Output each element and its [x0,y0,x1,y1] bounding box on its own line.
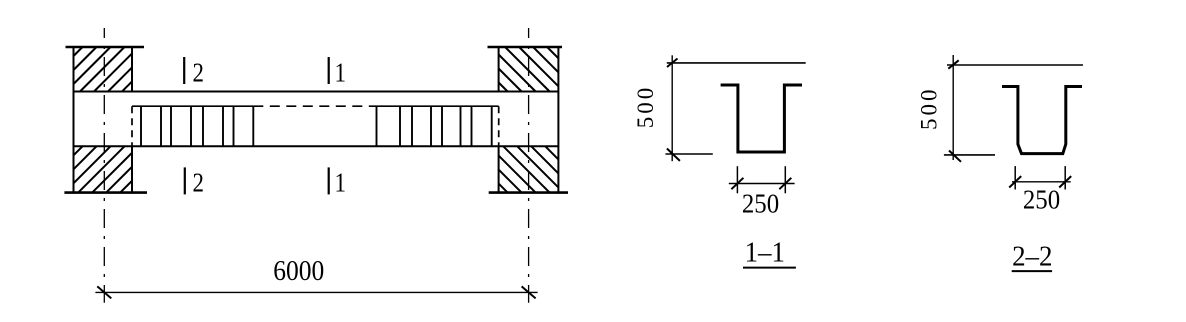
hatch bottom-left support [74,146,133,192]
section 2-2 bottom reference line [944,154,995,156]
svg-text:500: 500 [917,87,942,131]
section 1-1 U-profile [721,85,802,152]
top cap line left [66,46,145,49]
bottom cap line left [64,191,147,194]
centerline left column [103,28,105,303]
section 2-2 dimension line 250 [1012,181,1071,183]
section 2-2 U-profile [1002,87,1082,154]
section 1-1 bottom reference line [666,153,713,155]
right column left edge upper [498,46,500,92]
svg-text:1: 1 [335,169,346,198]
section 2-2 extension line left [1014,166,1016,189]
beam bottom line [74,145,560,147]
dimension tick right 6000 [522,286,536,298]
svg-text:2–2: 2–2 [1012,241,1052,273]
section 1-1 tick bottom [667,149,680,161]
section mark 2 upper tick [183,57,185,84]
left column right edge upper [131,46,133,92]
reinforcement cage top line solid right part [377,105,499,107]
section 2-2 dimension tick 250 right [1059,176,1071,187]
stirrup group right [377,106,492,146]
section 1-1 top reference line [667,62,806,64]
centerline right column [528,28,530,303]
section 1-1 extension line right [784,166,786,193]
section 1-1 dimension tick 250 left [731,178,743,189]
section 2-2 tick bottom [949,151,961,162]
svg-text:250: 250 [1023,185,1060,215]
section 1-1 extension line left [736,166,738,193]
section 2-2 top reference line [947,64,1083,66]
hatch top-left support [74,47,133,92]
section 1-1 tick top [667,59,678,68]
beam top line [74,91,559,93]
bottom cap line right [489,191,568,194]
section 2-2 tick top [948,60,958,68]
left column right edge lower [131,146,133,194]
stirrup group left [141,106,253,146]
section 2-2 title underline [1012,270,1052,272]
hatch bottom-right support [499,146,559,192]
hatch top-right support [499,47,559,92]
svg-text:500: 500 [633,85,658,129]
svg-text:6000: 6000 [273,255,324,287]
reinforcement cage right dashed edge [498,106,500,146]
section 1-1 dimension tick 250 right [779,178,791,189]
section mark 1 lower tick [328,167,330,194]
top cap line right [488,46,563,49]
dimension tick left 6000 [97,286,111,298]
section mark 2 lower tick [184,167,186,194]
section 1-1 title underline [743,267,796,269]
reinforcement cage top line solid left part [132,105,253,107]
svg-text:1: 1 [335,59,346,88]
section mark 1 upper tick [328,57,330,84]
section 1-1 dimension line 500 [671,55,673,161]
right column left edge lower [498,146,500,194]
dimension line 6000 [95,291,537,293]
section 2-2 dimension tick 250 left [1009,176,1021,187]
left column left edge [73,46,75,194]
section 2-2 extension line right [1064,166,1066,189]
reinforcement cage top line dashed middle part [253,105,376,107]
reinforcement cage left dashed edge [131,106,133,146]
section 2-2 dimension line 500 [952,55,954,160]
svg-text:2: 2 [193,169,204,198]
section 1-1 dimension line 250 [729,183,795,185]
svg-text:1–1: 1–1 [745,237,785,269]
right column right edge [557,46,559,194]
svg-text:250: 250 [742,189,779,219]
svg-text:2: 2 [193,59,204,88]
